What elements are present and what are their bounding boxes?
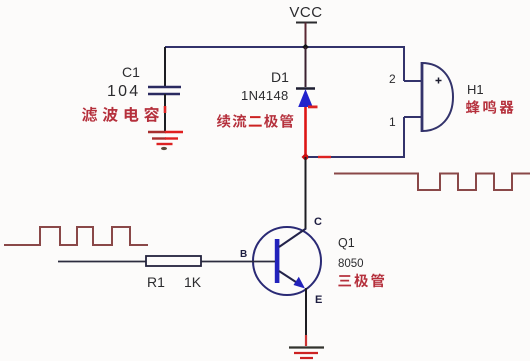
label 滤波电容 (82, 107, 159, 122)
VCC power symbol (296, 23, 317, 48)
svg-text:D1: D1 (271, 69, 289, 85)
svg-text:8050: 8050 (338, 258, 364, 270)
wire: top rail (165, 47, 404, 81)
svg-text:C1: C1 (122, 64, 140, 80)
resistor R1 (146, 256, 201, 266)
waveform: input square wave (4, 227, 148, 245)
label 三极管 (338, 274, 384, 288)
capacitor C1 (148, 87, 181, 94)
svg-text:104: 104 (107, 83, 140, 100)
label 续流二极管 (217, 114, 293, 128)
node: collector junction (302, 153, 310, 161)
wire: diode top lead (305, 47, 307, 87)
wire: collector (305, 157, 307, 229)
wire: node to buzzer pin1 (308, 117, 404, 157)
wire: diode to node (red) (304, 107, 307, 155)
wire: base (58, 261, 275, 263)
node: VCC junction (302, 44, 309, 50)
svg-text:H1: H1 (467, 82, 484, 97)
label 蜂鸣器 (466, 100, 514, 114)
wire: emitter to ground (305, 288, 307, 346)
transistor Q1 (253, 227, 321, 295)
diode D1 (296, 89, 318, 109)
svg-text:2: 2 (389, 72, 396, 86)
wire: C1 top lead (164, 47, 166, 86)
svg-text:E: E (315, 294, 322, 306)
buzzer H1 (404, 62, 453, 132)
wire: C1 bottom lead (164, 94, 166, 131)
svg-text:B: B (240, 249, 247, 260)
svg-text:1N4148: 1N4148 (241, 88, 289, 103)
svg-text:VCC: VCC (289, 4, 322, 21)
waveform: output square wave (334, 174, 530, 191)
ground (C1) (148, 132, 183, 150)
svg-text:Q1: Q1 (338, 236, 355, 250)
ground (emitter) (289, 348, 324, 359)
svg-text:C: C (314, 216, 322, 228)
svg-text:R1: R1 (147, 274, 165, 290)
svg-text:1: 1 (389, 115, 396, 129)
svg-text:1K: 1K (184, 274, 202, 290)
